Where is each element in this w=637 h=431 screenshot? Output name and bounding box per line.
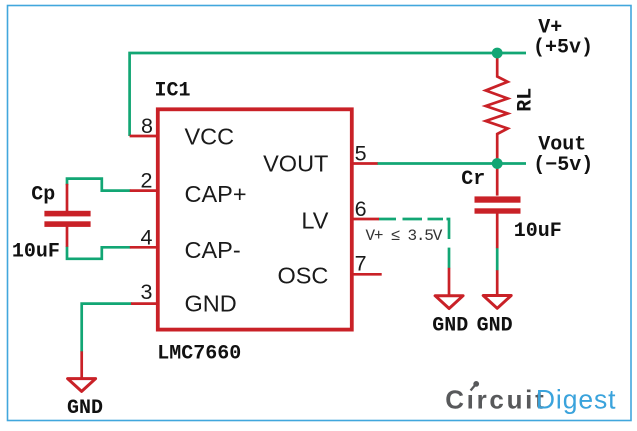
svg-text:(−5v): (−5v) bbox=[533, 154, 593, 177]
svg-text:6: 6 bbox=[355, 197, 367, 221]
svg-text:RL: RL bbox=[515, 88, 538, 112]
svg-text:GND: GND bbox=[477, 314, 513, 337]
svg-text:IC1: IC1 bbox=[155, 80, 191, 103]
svg-text:10uF: 10uF bbox=[12, 240, 60, 263]
svg-text:3: 3 bbox=[141, 280, 153, 304]
svg-text:LV: LV bbox=[301, 207, 328, 233]
svg-text:7: 7 bbox=[355, 252, 367, 276]
svg-text:VOUT: VOUT bbox=[263, 150, 328, 176]
svg-text:10uF: 10uF bbox=[514, 220, 562, 243]
svg-text:Cp: Cp bbox=[31, 184, 55, 207]
svg-text:2: 2 bbox=[141, 169, 153, 193]
svg-text:4: 4 bbox=[141, 225, 153, 249]
svg-text:GND: GND bbox=[67, 397, 103, 420]
svg-text:LMC7660: LMC7660 bbox=[157, 342, 241, 365]
svg-text:V+ ≤ 3.5V: V+ ≤ 3.5V bbox=[366, 227, 443, 245]
svg-text:Cırcuit: Cırcuit bbox=[445, 385, 546, 415]
svg-text:8: 8 bbox=[141, 114, 153, 138]
svg-text:5: 5 bbox=[355, 142, 367, 166]
svg-text:VCC: VCC bbox=[185, 124, 235, 150]
svg-text:Cr: Cr bbox=[461, 168, 485, 191]
svg-text:(+5v): (+5v) bbox=[533, 37, 593, 60]
svg-text:GND: GND bbox=[185, 291, 237, 317]
svg-text:CAP+: CAP+ bbox=[185, 181, 247, 207]
svg-text:OSC: OSC bbox=[277, 263, 328, 289]
svg-text:Digest: Digest bbox=[536, 385, 617, 415]
svg-text:GND: GND bbox=[432, 314, 468, 337]
svg-text:CAP-: CAP- bbox=[185, 237, 241, 263]
